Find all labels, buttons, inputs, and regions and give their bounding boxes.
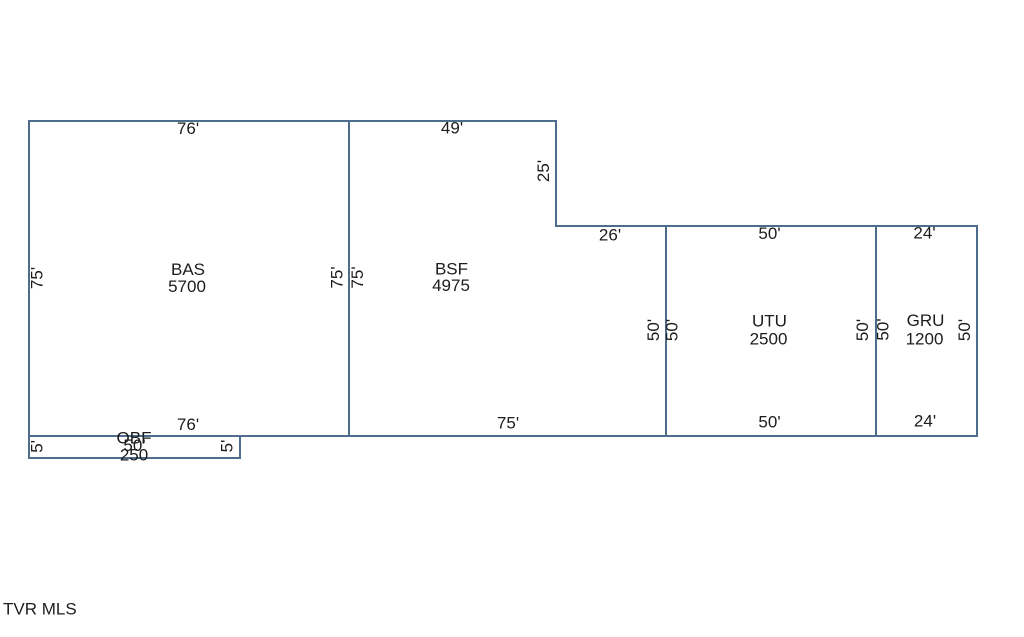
svg-text:50': 50' <box>955 319 974 341</box>
wall OBF bottom <box>28 457 241 459</box>
svg-text:50': 50' <box>874 318 893 340</box>
svg-text:5': 5' <box>28 440 47 453</box>
svg-text:75': 75' <box>497 414 519 433</box>
svg-text:76': 76' <box>177 415 199 434</box>
wall divider BAS/BSF <box>348 120 350 437</box>
svg-text:50': 50' <box>853 319 872 341</box>
svg-text:50': 50' <box>663 319 682 341</box>
svg-text:50': 50' <box>758 413 780 432</box>
svg-text:50': 50' <box>758 224 780 243</box>
svg-text:26': 26' <box>599 226 621 245</box>
svg-text:75': 75' <box>328 266 347 288</box>
svg-text:5700: 5700 <box>168 277 206 296</box>
svg-text:GRU: GRU <box>907 311 945 330</box>
svg-text:24': 24' <box>914 412 936 431</box>
wall top edge BAS+BSF <box>28 120 557 122</box>
svg-text:1200: 1200 <box>906 329 944 348</box>
svg-text:250: 250 <box>120 446 148 465</box>
svg-text:5': 5' <box>218 440 237 453</box>
wall left edge BAS and OBF <box>28 120 30 459</box>
svg-text:76': 76' <box>177 119 199 138</box>
svg-text:BAS: BAS <box>171 260 205 279</box>
wall top edge 26ft + UTU + GRU <box>555 225 978 227</box>
wall right edge GRU <box>976 225 978 437</box>
svg-text:2500: 2500 <box>750 329 788 348</box>
svg-text:4975: 4975 <box>432 276 470 295</box>
svg-text:24': 24' <box>913 224 935 243</box>
svg-text:UTU: UTU <box>752 312 787 331</box>
svg-text:75': 75' <box>348 266 367 288</box>
wall OBF right <box>239 435 241 459</box>
svg-text:50': 50' <box>644 319 663 341</box>
wall bottom main <box>28 435 978 437</box>
svg-text:49': 49' <box>441 119 463 138</box>
wall step vertical 25ft <box>555 120 557 227</box>
svg-text:TVR MLS: TVR MLS <box>3 600 77 619</box>
wall divider BSF/UTU <box>665 225 667 437</box>
svg-text:75': 75' <box>28 267 47 289</box>
wall divider UTU/GRU <box>875 225 877 437</box>
svg-text:25': 25' <box>534 160 553 182</box>
